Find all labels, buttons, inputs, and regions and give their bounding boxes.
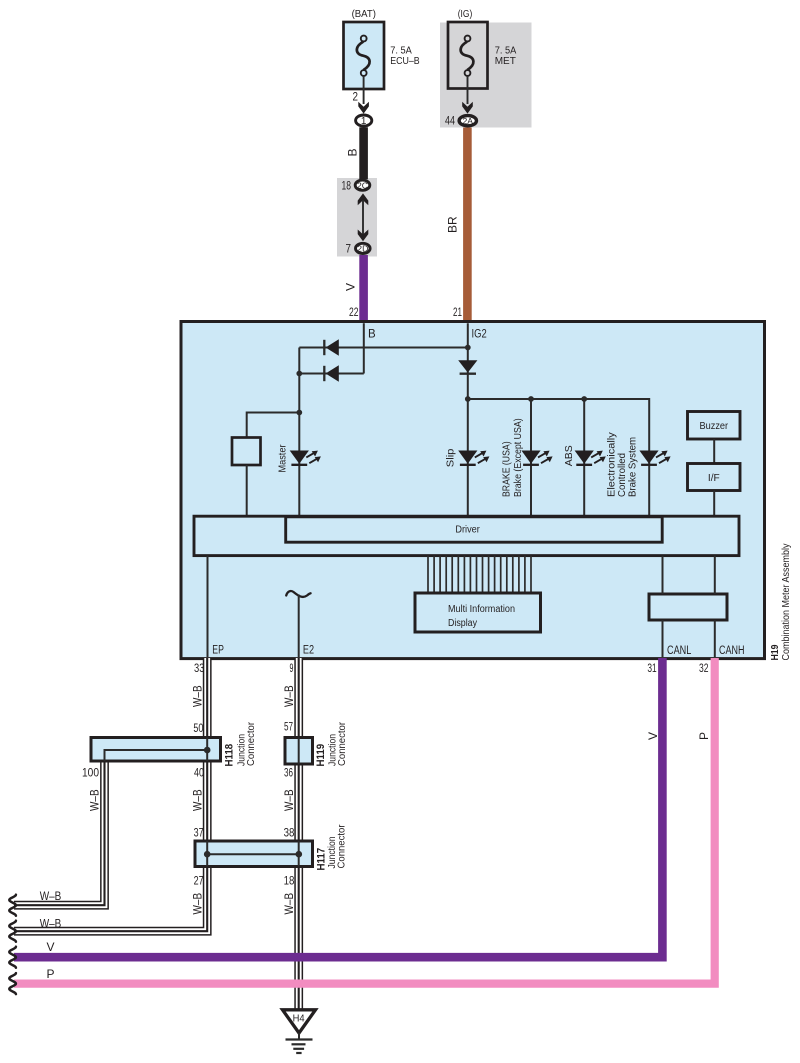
svg-text:2: 2 [353,90,359,104]
gray background box around MET fuse [440,23,532,128]
svg-text:40: 40 [194,766,204,780]
wire continuation squiggle (P wire) [9,973,16,994]
svg-text:Combination Meter Assembly: Combination Meter Assembly [781,543,792,660]
wire buzzer to I/F [713,439,715,464]
svg-text:EP: EP [212,645,224,657]
svg-text:E2: E2 [303,645,314,657]
svg-text:Driver: Driver [455,525,480,536]
H117 internal busbar [207,853,299,855]
svg-text:32: 32 [699,661,709,675]
wire resistor to driver [246,465,248,517]
fuse MET box [448,22,488,89]
LED Master [290,451,309,464]
svg-text:2D: 2D [357,243,368,253]
terminal oval 2C [355,180,370,190]
svg-text:BR: BR [445,216,459,233]
H118 internal busbar [105,750,208,761]
svg-text:W–B: W–B [88,789,102,811]
ground stem [298,1033,300,1040]
svg-text:Master: Master [278,444,289,473]
svg-text:W–B: W–B [191,789,205,811]
junction connector H119 box [285,738,313,765]
wire branch lower (B to left rail) [299,373,364,375]
svg-text:Electronically: Electronically [607,431,618,497]
wire V (purple) CANL [14,658,662,957]
combination meter assembly block H19 [181,322,765,659]
ground H4 triangle [283,1010,316,1033]
svg-text:P: P [46,967,54,981]
svg-text:H119: H119 [315,744,327,767]
node junction bus at BRAKE column [528,396,534,402]
svg-text:Display: Display [448,618,477,629]
node junction on left rail at resistor branch [296,410,302,416]
LED ABS [575,451,594,464]
wire branch upper (B to IG2) [299,347,468,349]
svg-text:ECU–B: ECU–B [390,56,420,67]
svg-text:Controlled: Controlled [617,453,628,497]
wire left rail vertical [298,348,300,518]
wire BR (brown) from 2A to pin 21 [463,128,472,322]
diode D2 on lower branch [324,365,339,381]
wire continuation squiggle (27 wire) [9,921,16,942]
svg-text:44: 44 [445,114,455,128]
wire B internal vertical [363,323,365,373]
svg-text:Connector: Connector [245,722,257,766]
svg-text:(BAT): (BAT) [352,9,376,20]
diode D3 on IG2 line [458,360,477,374]
svg-text:BRAKE (USA): BRAKE (USA) [501,441,512,497]
svg-text:W–B: W–B [191,893,205,915]
terminal oval 2A [459,116,476,126]
svg-text:W–B: W–B [282,893,296,915]
connector arrow up toward 2C [358,193,369,205]
svg-text:V: V [344,283,358,291]
svg-text:W–B: W–B [282,789,296,811]
multi information display box [415,593,541,632]
svg-text:Brake System: Brake System [628,437,639,497]
wire EP internal [207,556,209,657]
wire continuation squiggle (100 wire) [9,895,16,916]
gray background box around 2C/2D connector [337,178,377,257]
svg-text:100: 100 [82,766,99,780]
H117 internal pass-throughs [206,841,208,867]
wire fuse MET lead [467,76,469,104]
node junctions in H117 [204,851,211,858]
connector arrow down toward 2D [358,230,369,242]
svg-text:W–B: W–B [282,685,296,707]
svg-text:V: V [646,732,660,740]
wire V (purple) from 2D to pin 22 [359,255,368,322]
svg-text:MET: MET [495,56,516,67]
svg-text:W–B: W–B [40,889,62,903]
svg-text:33: 33 [194,661,205,675]
wire IG2 internal vertical [467,323,469,517]
wire to resistor [247,413,300,438]
svg-text:W–B: W–B [191,685,205,707]
svg-text:CANH: CANH [719,645,745,657]
wire P (pink) CANH [14,658,715,984]
svg-text:Connector: Connector [336,722,348,766]
svg-text:18: 18 [284,874,295,888]
svg-text:IG2: IG2 [472,329,487,341]
node junction on left rail at lower branch [296,371,302,377]
signal ribbon hatch to display [428,556,531,593]
svg-text:(IG): (IG) [458,9,473,20]
node junction bus at ABS column [581,396,587,402]
junction connector H117 box [195,841,313,867]
wire warning-lamp bus [468,399,649,517]
svg-text:V: V [46,940,54,954]
resistor box [232,438,261,466]
LED Electronically Controlled Brake System [639,451,658,464]
wire BRAKE column [530,399,532,517]
svg-text:21: 21 [453,305,462,319]
svg-text:9: 9 [290,661,294,675]
wire W-B from E2 pin 9 to ground [294,658,303,1009]
fuse ECU-B box [344,22,385,89]
svg-text:18: 18 [342,179,352,193]
wire fuse ECU-B lead [363,76,365,104]
wire continuation squiggle (V wire) [9,947,16,968]
connector arrow into terminal 2A [462,102,473,114]
CAN transceiver box [649,594,727,620]
svg-text:37: 37 [194,826,204,840]
svg-text:I/F: I/F [708,472,720,484]
svg-text:7: 7 [346,242,352,256]
wire E2 internal [298,595,300,658]
wire B (black) from terminal 1 to 2C [359,127,368,179]
node junction IG2 upper branch [465,345,471,351]
svg-text:Connector: Connector [335,824,347,868]
driver outer box [194,516,739,555]
svg-text:Slip: Slip [446,448,457,467]
svg-text:38: 38 [284,826,295,840]
svg-text:Buzzer: Buzzer [699,420,728,432]
svg-text:B: B [368,329,376,341]
svg-text:H118: H118 [223,744,235,767]
wire between 2C and 2D [362,200,364,235]
LED BRAKE [521,451,540,464]
svg-text:22: 22 [349,305,359,319]
H119 internal wire pass-through [298,738,300,765]
connector arrow into terminal 1 [358,102,369,114]
svg-text:H4: H4 [293,1014,305,1025]
svg-text:27: 27 [194,874,204,888]
wire I/F to driver [713,491,715,518]
wire CANH internal [714,556,716,594]
driver box [286,517,663,542]
terminal oval 2D [356,243,371,253]
svg-text:36: 36 [284,766,293,780]
fuse MET symbol [465,36,471,42]
diode D1 on upper branch [324,339,339,355]
fuse ECU-B symbol [361,36,367,42]
svg-text:2C: 2C [357,180,368,190]
terminal oval 1 [356,115,372,126]
svg-text:Brake (Except USA): Brake (Except USA) [513,418,524,497]
I/F box [688,464,741,491]
svg-text:2A: 2A [463,116,474,126]
svg-text:ABS: ABS [564,445,575,466]
buzzer box U-Buzzer [688,412,741,440]
svg-text:1: 1 [361,116,367,127]
svg-text:31: 31 [647,661,657,675]
node junction in H118 [204,747,211,754]
node junction IG2 at bus [465,396,471,402]
LED Slip [458,451,477,464]
svg-text:P: P [697,732,711,740]
H118 internal wire pass-through [206,738,208,762]
junction connector H118 box [91,738,221,762]
svg-text:CANL: CANL [667,645,692,657]
svg-text:Multi Information: Multi Information [448,604,515,615]
wire W-B from H118 pin 100 [14,750,105,905]
ground hatch bars [286,1040,313,1054]
svg-text:B: B [346,148,360,156]
svg-text:H19: H19 [770,644,781,660]
wire ABS column [583,399,585,517]
svg-text:W–B: W–B [40,917,62,931]
squiggle on E2 internal wire [286,591,310,597]
svg-text:50: 50 [193,721,203,735]
wire CANL internal [662,556,664,594]
svg-text:57: 57 [284,720,293,734]
wire W-B from EP pin 33 through junction connectors to pin 27 tail [14,658,207,931]
